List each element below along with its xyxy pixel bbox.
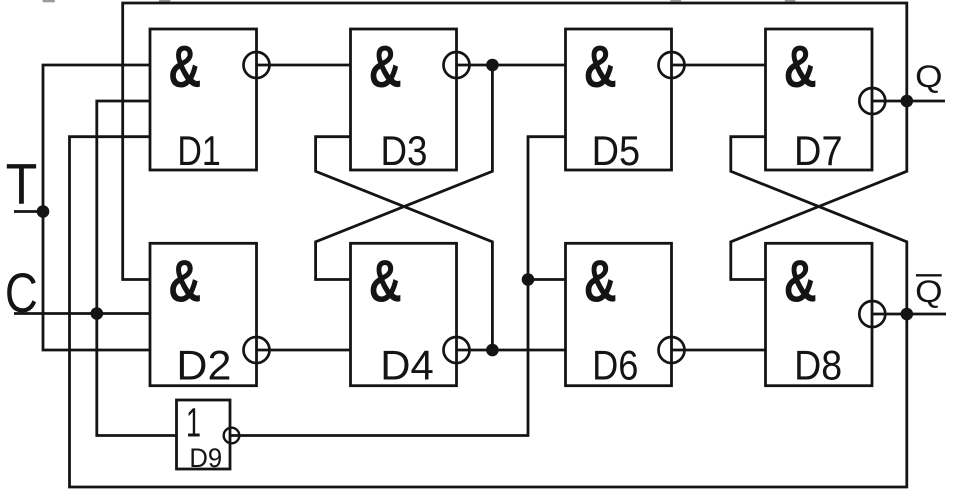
NAND gate D5 body [566,29,672,170]
svg-text:&: & [784,33,817,100]
inverter D9 body [177,400,231,469]
wire: Q output lead [872,100,945,103]
wire: D9 output branch to D6 top input [528,278,566,281]
junction dot on Q node [901,95,914,108]
svg-text:&: & [168,248,201,315]
svg-text:Q: Q [915,273,942,309]
svg-text:&: & [584,248,617,315]
wire: Q top feedback to D2 top input [123,3,907,280]
NAND gate D8 body [766,243,873,385]
svg-text:&: & [784,248,817,315]
inversion bubble on D8 output [859,301,885,327]
svg-text:D6: D6 [592,341,638,388]
svg-text:Q: Q [915,58,942,94]
wire: Qbar output lead [872,313,946,316]
wire: cross-couple D4 output up to D3 bottom input [316,137,493,350]
overline of Qbar label [916,274,942,276]
NAND gate D1 body [150,29,257,170]
wire: D4 output to D6 bottom input [457,349,566,352]
wire: T vertical bus to D1 top input and D2 bottom input [43,65,150,350]
inversion bubble on D2 output [244,337,270,363]
svg-text:C: C [5,262,38,324]
cropped text remnant mark 4 [785,0,796,2]
wire: D6 output to D8 bottom input [672,349,766,352]
wire: C input lead to D2 middle input [14,312,150,315]
svg-text:D3: D3 [381,127,428,174]
inversion bubble on D3 output [444,52,470,78]
inversion bubble on D6 output [659,337,685,363]
inversion bubble on D1 output [244,52,270,78]
inversion bubble on D9 output [224,428,240,444]
NAND gate D2 body [150,243,257,385]
svg-text:D8: D8 [794,341,842,388]
wire: cross-couple D7 output down to D8 top input [731,101,907,280]
wire: D3 output to D5 top input [457,64,566,67]
wire: cross-couple D3 output down to D4 top input [316,65,493,280]
junction dot on D9 output node at D6 input [522,273,535,286]
cropped text remnant mark 1 [43,0,55,2]
NAND gate D6 body [566,243,672,385]
svg-text:D1: D1 [177,127,220,174]
svg-text:D2: D2 [176,341,231,388]
wire: C branch to D1 middle input and down to D9 input [97,101,177,436]
junction dot on Qbar node [901,308,914,321]
svg-text:T: T [6,152,38,216]
junction dot on T input node [37,205,50,218]
inversion bubble on D4 output [444,337,470,363]
wire: D9 output up to D5 bottom input [230,137,566,436]
junction dot on C input node [91,307,104,320]
NAND gate D7 body [766,29,873,170]
svg-text:&: & [369,33,402,100]
wire: D2 output to D4 bottom input [257,349,351,352]
wire: T input lead [14,210,40,213]
wire: D1 output to D3 top input [257,64,351,67]
wire: D5 output to D7 top input [672,64,766,67]
svg-text:D9: D9 [189,443,222,473]
inversion bubble on D7 output [859,88,885,114]
NAND gate D3 body [351,29,457,170]
junction dot on D3 output node [486,59,499,72]
junction dot on D4 output node [486,344,499,357]
NAND gate D4 body [351,243,457,385]
svg-text:D7: D7 [794,127,843,174]
cropped text remnant mark 2 [159,0,170,3]
svg-text:&: & [369,248,402,315]
wire: cross-couple D8 output up to D7 bottom input [731,137,907,314]
svg-text:&: & [168,33,201,100]
cropped text remnant mark 3 [670,0,681,1]
inversion bubble on D5 output [659,52,685,78]
svg-text:D5: D5 [592,127,641,174]
svg-text:&: & [584,33,617,100]
svg-text:D4: D4 [380,341,434,388]
wire: Qbar bottom feedback to D1 bottom input [70,137,907,487]
svg-text:1: 1 [186,399,201,445]
